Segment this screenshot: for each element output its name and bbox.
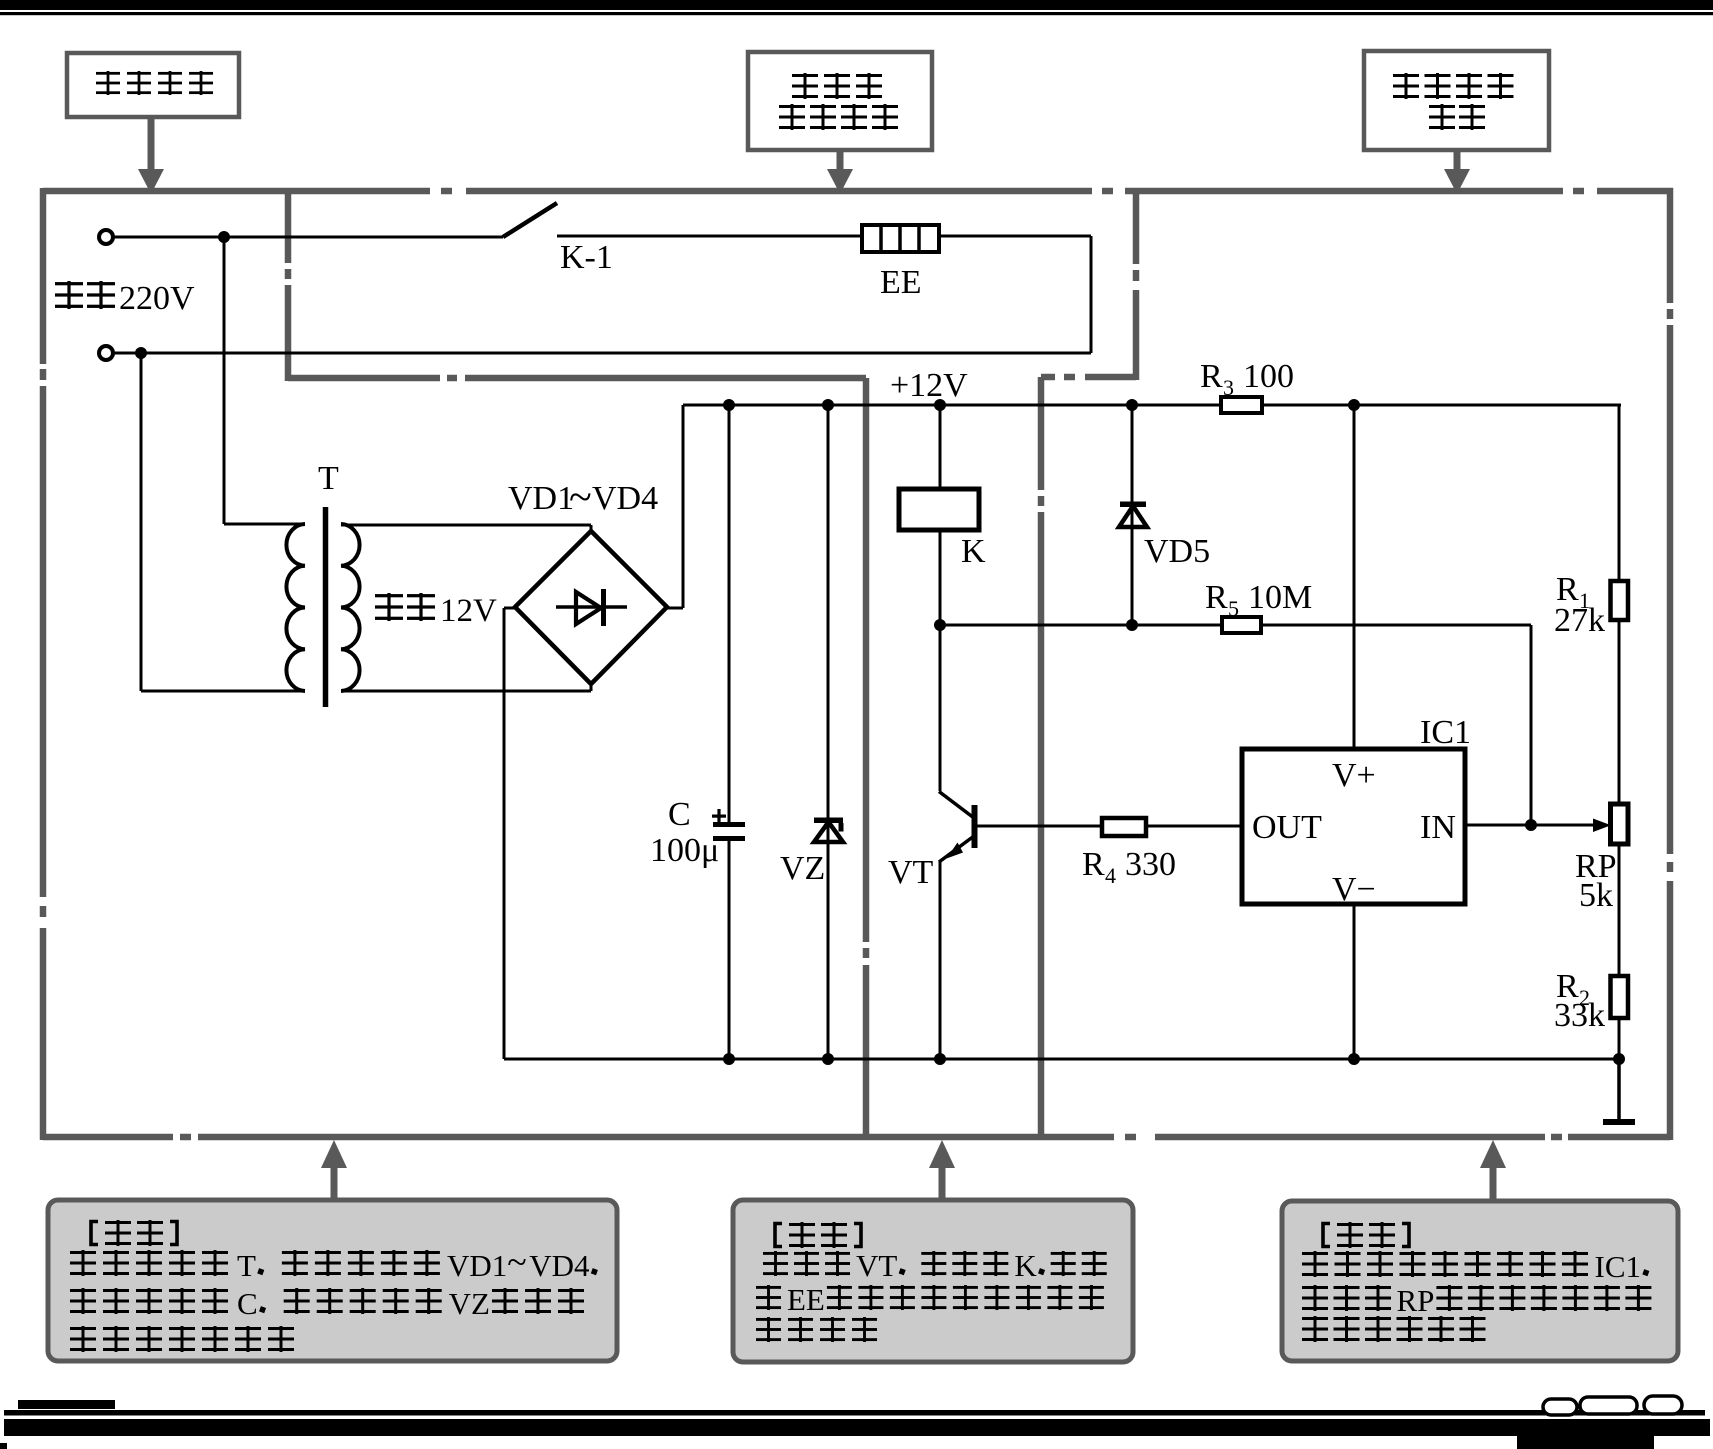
svg-text:12V: 12V [440, 593, 497, 629]
svg-text:K: K [961, 533, 986, 570]
svg-text:4: 4 [1105, 863, 1116, 888]
note box 1: 说明 power supply parts [48, 1200, 617, 1361]
wire: bridge left vertex to ground rail [504, 608, 515, 1059]
svg-text:OUT: OUT [1252, 809, 1322, 846]
arrow from 加热器控制电路 box to frame [827, 150, 853, 194]
resistor R1 27k [1611, 581, 1629, 620]
arrow from 温度控制电路 box to frame [1444, 150, 1470, 194]
wire: +12V rail down through R1-RP-R2 chain [1618, 405, 1621, 1059]
label: 交流12V (AC 12V) [375, 593, 497, 629]
svg-text:T: T [237, 1248, 256, 1283]
wire: bridge right vertex to +12V rail [667, 405, 683, 608]
svg-text:VZ: VZ [780, 850, 825, 887]
svg-text:R: R [1200, 358, 1223, 395]
node: capacitor top on +12V rail [723, 399, 735, 411]
diode VD5 [1119, 405, 1147, 625]
svg-text:+12V: +12V [890, 367, 968, 404]
resistor R4 330 [1102, 818, 1146, 836]
arrow from note 2 to frame [929, 1140, 955, 1200]
svg-text:R: R [1205, 579, 1228, 616]
transformer T core [323, 507, 329, 707]
svg-text:K: K [1014, 1248, 1037, 1283]
resistor R2 33k [1611, 976, 1629, 1018]
svg-text:VT: VT [856, 1248, 897, 1283]
wire: ground rail [504, 1058, 1619, 1061]
svg-text:VD1: VD1 [447, 1248, 507, 1283]
node: junction AC line1 / transformer primary [218, 231, 230, 243]
label: R3 100 [1200, 358, 1294, 400]
terminal: AC line 2 [99, 346, 113, 360]
wire: AC line 2 from terminal to heater loop [112, 352, 1091, 355]
svg-text:IC1: IC1 [1595, 1249, 1642, 1284]
wire: relay junction to R5 to IN node [940, 625, 1531, 825]
svg-text:VD4: VD4 [592, 480, 658, 517]
svg-text:10M: 10M [1248, 579, 1312, 616]
svg-text:C: C [668, 796, 691, 833]
wire: AC line 1 from terminal to switch [112, 236, 503, 239]
resistor R5 10M [1222, 617, 1261, 633]
label box: 温度控制电路 (temperature control circuit) [1364, 51, 1549, 150]
svg-text:33k: 33k [1554, 997, 1605, 1034]
label: R2 33k [1554, 968, 1605, 1034]
note box 3: 说明 temperature control parts [1282, 1201, 1678, 1361]
resistor R3 100 [1221, 397, 1262, 413]
svg-text:C: C [237, 1286, 258, 1321]
svg-text:VD4: VD4 [529, 1248, 590, 1283]
zener diode VZ [814, 405, 844, 1059]
node: relay coil / VD5 / R5 junction [934, 619, 946, 631]
switch K-1 blade [503, 203, 557, 237]
wire: IC1 V- pin to ground rail [1353, 904, 1356, 1059]
svg-text:3: 3 [1223, 375, 1234, 400]
svg-text:R: R [1082, 846, 1105, 883]
node: R3 right junction to IC1 V+ [1348, 399, 1360, 411]
label: RP 5k [1575, 848, 1617, 914]
wire: switch to heater EE [557, 235, 862, 238]
label: R1 27k [1554, 571, 1605, 639]
block boundary: power-supply / heater-control divider (dash-dot) [288, 191, 866, 1137]
node: VD5 bottom junction [1126, 619, 1138, 631]
node: junction AC line2 / transformer primary [135, 347, 147, 359]
svg-text:IC1: IC1 [1420, 714, 1471, 751]
node: emitter on ground rail [934, 1053, 946, 1065]
svg-text:IN: IN [1420, 809, 1456, 846]
label box: 供电电路 (power supply circuit) [67, 53, 239, 117]
label: VD1~VD4 [508, 475, 658, 521]
ground [1603, 1059, 1635, 1125]
svg-text:~: ~ [569, 475, 592, 521]
heater EE element [862, 225, 939, 252]
label: 交流220V (AC 220V) [55, 280, 195, 317]
svg-text:VD1: VD1 [508, 480, 574, 517]
block boundary: heater-control / temperature-control divider (dash-dot) [1041, 191, 1136, 1137]
svg-text:5k: 5k [1579, 877, 1613, 914]
op-amp/sensor IC1 [1242, 749, 1465, 908]
node: zener bottom on ground rail [822, 1053, 834, 1065]
label: R5 10M [1205, 579, 1312, 621]
wire: VT base to R4 to IC1 OUT [977, 825, 1242, 828]
svg-text:~: ~ [507, 1242, 526, 1282]
capacitor C 100μ [712, 405, 745, 1059]
svg-text:330: 330 [1125, 846, 1176, 883]
svg-text:VZ: VZ [449, 1286, 490, 1321]
label: C 100μ [650, 796, 719, 869]
svg-text:EE: EE [787, 1282, 825, 1317]
svg-text:V−: V− [1332, 871, 1376, 908]
node: VD5 top on +12V rail [1126, 399, 1138, 411]
wire: heater EE to AC line 2 (loop) [939, 236, 1091, 353]
transistor VT [939, 625, 978, 1059]
transformer T primary winding [141, 237, 305, 691]
svg-text:K-1: K-1 [560, 239, 613, 276]
node: IN / R5 junction [1525, 819, 1537, 831]
label: R4 330 [1082, 846, 1176, 888]
node: IC1 V- on ground rail [1348, 1053, 1360, 1065]
block boundary: outer dash-dot frame [43, 188, 1673, 1140]
node: capacitor bottom on ground rail [723, 1053, 735, 1065]
svg-text:VT: VT [888, 854, 934, 891]
wire: +12V to IC1 V+ pin [1353, 405, 1356, 749]
svg-text:VD5: VD5 [1144, 533, 1210, 570]
note box 2: 说明 heater control parts [733, 1200, 1133, 1362]
transformer T secondary winding [341, 524, 591, 691]
svg-text:100: 100 [1243, 358, 1294, 395]
arrow from note 3 to frame [1480, 1140, 1506, 1201]
svg-text:V+: V+ [1332, 757, 1376, 794]
svg-text:100μ: 100μ [650, 832, 719, 869]
node: zener top on +12V rail [822, 399, 834, 411]
svg-text:EE: EE [880, 264, 922, 301]
relay K coil [899, 405, 979, 625]
bridge rectifier VD1~VD4 [515, 531, 667, 684]
wire: +12V rail [683, 404, 1621, 407]
svg-text:T: T [318, 460, 339, 497]
svg-text:27k: 27k [1554, 602, 1605, 639]
arrow from 供电电路 box to frame [138, 117, 164, 194]
potentiometer RP 5k [1611, 804, 1629, 844]
terminal: AC line 1 [99, 230, 113, 244]
svg-text:RP: RP [1397, 1283, 1435, 1318]
wire: IC1 IN pin to RP wiper (arrow) [1465, 819, 1611, 833]
label box: 加热器控制电路 (heater control circuit) [748, 52, 932, 150]
node: relay top on +12V rail [934, 399, 946, 411]
svg-text:220V: 220V [119, 280, 195, 317]
arrow from note 1 to frame [321, 1140, 347, 1200]
svg-text:5: 5 [1228, 596, 1239, 621]
node: R2 bottom on ground rail [1613, 1053, 1625, 1065]
